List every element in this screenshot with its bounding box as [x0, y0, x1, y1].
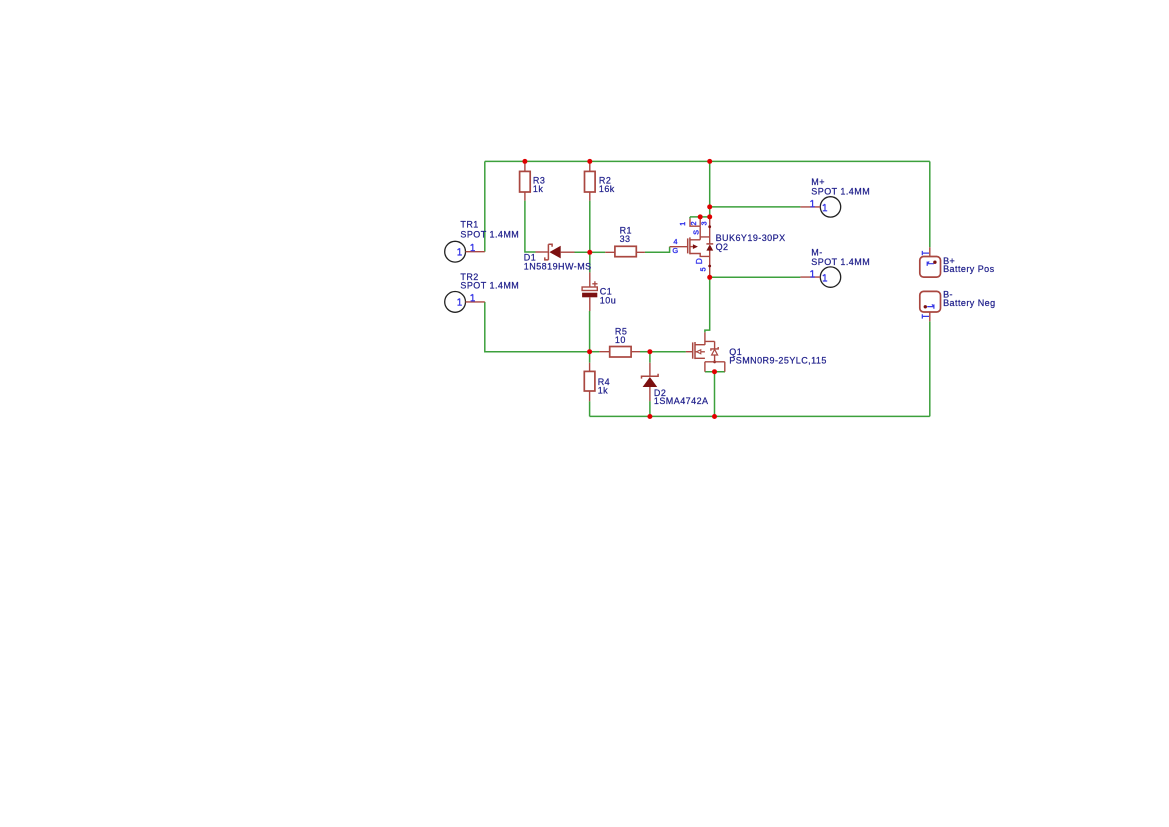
svg-text:SPOT 1.4MM: SPOT 1.4MM	[811, 257, 870, 267]
wire node to R1 left	[590, 251, 605, 253]
wire Q2 drain to Q1 drain	[705, 277, 710, 332]
wire left rail lower (TR2 to R5 row)	[485, 302, 590, 352]
Q2 main vertical with body diode	[709, 217, 711, 277]
wire top rail	[485, 160, 930, 162]
wire C1 bottom to R5 node	[589, 311, 591, 352]
junction top rail at R3	[522, 159, 527, 164]
svg-text:10u: 10u	[600, 296, 616, 306]
resistor R1	[605, 226, 645, 257]
wire D2 bottom to bottom rail	[649, 401, 651, 416]
svg-text:PSMN0R9-25YLC,115: PSMN0R9-25YLC,115	[729, 355, 827, 365]
transistor Q1 N-MOSFET	[686, 332, 827, 371]
svg-text:2: 2	[691, 221, 698, 225]
junction R5 left node	[587, 349, 592, 354]
wire top rail down to Q2 source	[709, 161, 711, 217]
svg-text:G: G	[672, 246, 678, 255]
wire M+ net	[710, 206, 801, 208]
Q2 gate lead	[670, 246, 688, 248]
svg-text:SPOT 1.4MM: SPOT 1.4MM	[460, 230, 519, 240]
svg-text:Q2: Q2	[716, 242, 729, 252]
connector B- Battery Neg	[920, 290, 996, 322]
connector TR2	[445, 272, 520, 313]
Q1 body diode (zener bar + open triangle)	[711, 347, 718, 351]
svg-text:M-: M-	[811, 248, 822, 258]
resistor R5	[599, 327, 640, 358]
connector TR1	[445, 219, 520, 262]
wire bottom rail	[590, 415, 930, 417]
connector M-	[800, 248, 870, 288]
svg-text:Battery Pos: Battery Pos	[943, 264, 995, 274]
wire left rail upper (top rail to TR1)	[484, 161, 486, 251]
svg-text:SPOT 1.4MM: SPOT 1.4MM	[460, 281, 519, 291]
wire R2 column down to node	[589, 201, 591, 253]
svg-text:33: 33	[620, 234, 631, 244]
Q2 body arrow	[690, 246, 693, 248]
Q2 small pin dots	[708, 225, 711, 228]
svg-text:SPOT 1.4MM: SPOT 1.4MM	[811, 187, 870, 197]
Q1 gate lead	[686, 351, 692, 353]
junction Q2 source pin3	[707, 214, 712, 219]
svg-text:1: 1	[680, 222, 687, 226]
resistor R3	[520, 163, 546, 201]
svg-text:TR1: TR1	[460, 219, 478, 229]
wire R1 right to Q2 gate elbow	[645, 247, 670, 253]
svg-text:16k: 16k	[599, 184, 615, 194]
diode D1 (Schottky)	[524, 244, 592, 271]
Q2 gate bar and channel bar	[687, 238, 689, 253]
svg-text:M+: M+	[811, 177, 825, 187]
Q1 gate bar and channel bar	[692, 342, 694, 358]
svg-text:1SMA4742A: 1SMA4742A	[654, 396, 709, 406]
Q1 source tap	[695, 357, 705, 359]
wire right rail upper (top rail to B+)	[929, 161, 931, 247]
Q1 body-diode branch	[705, 341, 715, 349]
Q2 drain tap	[690, 254, 710, 257]
junction bottom rail at D2	[647, 414, 652, 419]
wire R4 bottom to bottom rail	[589, 401, 591, 416]
wire D2 node to Q1 gate	[650, 351, 686, 353]
wire Q2 source bracket	[690, 217, 710, 219]
wire R5 node to R5 left	[590, 351, 600, 353]
diode D2 (zener)	[642, 363, 709, 407]
transistor Q2 P-MOSFET	[670, 217, 786, 277]
wire R3 column down to D1 row	[525, 201, 536, 252]
Q1 drain tap	[695, 344, 705, 346]
svg-text:S: S	[694, 230, 701, 235]
wire R4 top	[589, 352, 591, 363]
junction node D1 R1 R2 C1	[587, 250, 592, 255]
wire D1 anode to node	[575, 251, 593, 253]
Q1 body tap with open arrow	[695, 351, 705, 353]
wire Q1 source bar	[705, 371, 725, 373]
svg-text:10: 10	[615, 335, 626, 345]
resistor R2	[585, 163, 615, 201]
svg-text:D: D	[694, 258, 704, 264]
junction Q1 source node	[712, 369, 717, 374]
wire Q1 source to bottom rail	[714, 372, 716, 417]
Q1 drain lead	[704, 332, 706, 345]
Q2 pin stubs 1 2 3	[689, 217, 700, 226]
svg-text:1k: 1k	[598, 386, 608, 396]
svg-text:3: 3	[701, 221, 708, 225]
junction bottom rail at Q1	[712, 414, 717, 419]
junction top rail at Q2	[707, 159, 712, 164]
junction M+ node	[707, 204, 712, 209]
wire right rail lower (B- to bottom rail)	[929, 321, 931, 416]
junction M- node	[707, 275, 712, 280]
svg-text:1k: 1k	[533, 184, 543, 194]
connector M+	[800, 177, 870, 217]
junction top rail at R2	[587, 159, 592, 164]
svg-text:5: 5	[701, 267, 708, 271]
wire R5 right to D2 node	[640, 351, 650, 353]
Q2 source link into body	[690, 226, 710, 240]
capacitor C1	[582, 272, 616, 311]
wire M- net	[710, 276, 801, 278]
wire D2 top	[649, 352, 651, 363]
svg-text:4: 4	[673, 237, 677, 246]
junction D2 top node	[647, 349, 652, 354]
wire node down to C1	[589, 252, 591, 272]
resistor R4	[584, 363, 610, 402]
svg-text:Battery Neg: Battery Neg	[943, 298, 995, 308]
junction Q2 source pin2	[698, 214, 703, 219]
svg-text:1N5819HW-MS: 1N5819HW-MS	[524, 261, 592, 271]
connector B+ Battery Pos	[920, 247, 995, 277]
Q1 source box	[705, 362, 725, 372]
